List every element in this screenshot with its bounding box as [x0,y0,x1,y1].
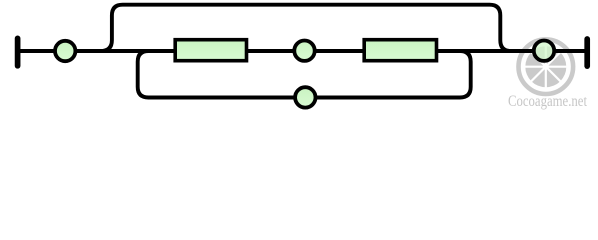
wire (skip bypass) [101,5,512,51]
wire [553,49,585,53]
node (mid) [294,41,314,61]
node (loop separator) [295,87,315,107]
wire [314,49,366,53]
resistor R1 [175,40,246,61]
node (start) [55,41,75,61]
wire (repeat loop) [138,51,471,98]
node (end) [534,41,554,61]
resistor R2 [364,40,436,61]
wire [18,49,56,53]
wire [246,49,296,53]
left terminal [15,38,21,65]
wire [435,49,536,53]
watermark logo [519,39,574,94]
svg-text:Cocoagame.net: Cocoagame.net [508,93,587,110]
wire [75,49,177,53]
right terminal [584,39,590,66]
